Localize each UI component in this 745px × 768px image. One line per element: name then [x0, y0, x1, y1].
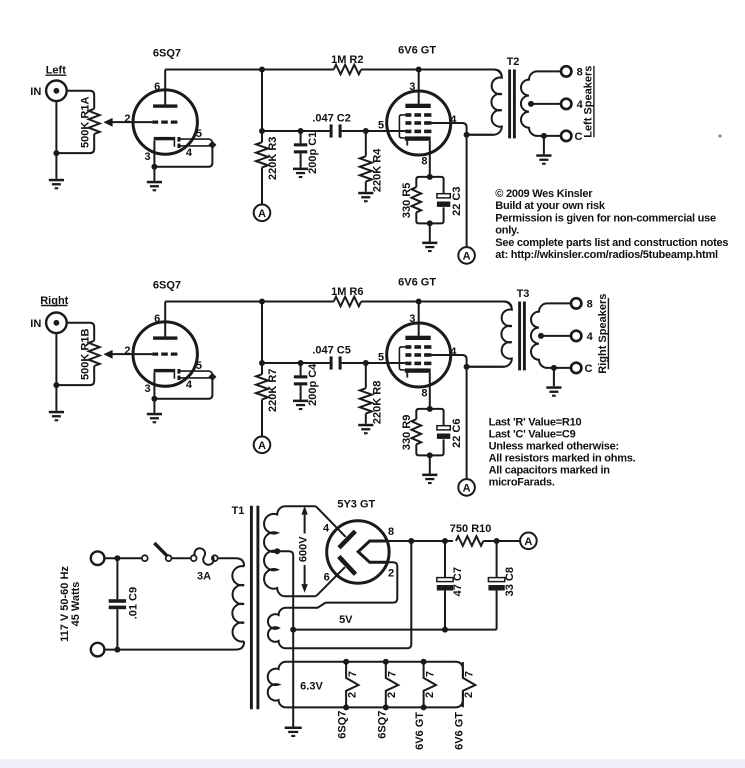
transformer T3 core — [518, 302, 521, 371]
wire diodes to cathode ground — [154, 145, 212, 167]
svg-text:A: A — [463, 250, 471, 262]
svg-text:5: 5 — [378, 119, 384, 131]
wire HV top to 5Y3 plate pin 4 — [316, 506, 346, 537]
transformer T2 secondary winding — [521, 71, 561, 135]
beam tetrode VL2 6V6 GT envelope — [387, 91, 451, 155]
svg-text:5: 5 — [196, 360, 202, 372]
ground (speaker common) — [536, 154, 551, 157]
junction C8 tap — [494, 538, 500, 544]
svg-text:8: 8 — [388, 526, 394, 538]
transformer T2 primary winding — [361, 70, 502, 135]
600V annotation arrow — [304, 514, 306, 534]
6V6 cathode lead pin 8 — [429, 141, 431, 177]
junction heater top — [343, 659, 349, 665]
beam tetrode VR2 6V6 GT envelope — [387, 323, 451, 387]
ground (6SQ7 cathode) — [147, 413, 162, 416]
svg-text:All resistors marked in ohms.: All resistors marked in ohms. — [489, 452, 636, 464]
input jack JR — [46, 313, 67, 334]
junction C9 top — [114, 555, 120, 561]
6V6 cathode — [405, 368, 431, 372]
svg-text:T3: T3 — [517, 288, 530, 300]
resistor 330 R9 (cathode bias) — [412, 419, 422, 444]
wire common to ground — [543, 136, 545, 154]
svg-text:4: 4 — [186, 147, 193, 159]
ground (grid resistor) — [358, 424, 373, 427]
wire C to 6V6 grid — [342, 362, 406, 364]
node A (B+ to preamp) — [254, 437, 271, 454]
ground (speaker common) — [546, 386, 561, 389]
junction grid resistor 220K R4 tap — [363, 128, 369, 134]
svg-text:47 C7: 47 C7 — [452, 567, 464, 596]
svg-text:microFarads.: microFarads. — [489, 476, 555, 488]
heater filament (6V6 GT #4) pins 2/7 — [463, 662, 475, 707]
wire diodes to cathode ground — [154, 377, 212, 399]
svg-text:6: 6 — [154, 81, 160, 93]
junction 200p C1 tap — [298, 128, 304, 134]
svg-text:6V6 GT: 6V6 GT — [414, 712, 426, 750]
svg-text:6: 6 — [154, 313, 160, 325]
svg-text:500K R1B: 500K R1B — [80, 329, 92, 380]
wire switch to fuse — [172, 557, 191, 559]
svg-text:220K R8: 220K R8 — [371, 381, 383, 424]
svg-text:2: 2 — [424, 692, 436, 698]
capacitor 22 C3 (cathode bypass) — [437, 194, 450, 198]
6SQ7 plate — [153, 104, 177, 107]
speaker terminal 4 — [571, 331, 581, 341]
AC input terminal (line) — [91, 551, 105, 565]
svg-text:A: A — [258, 440, 266, 452]
svg-text:6SQ7: 6SQ7 — [153, 48, 181, 60]
svg-text:.047 C2: .047 C2 — [312, 112, 351, 124]
junction cathode/diode node — [151, 164, 157, 170]
rectifier V5 5Y3 GT envelope — [327, 521, 389, 583]
svg-text:6: 6 — [324, 571, 330, 583]
svg-text:33 C8: 33 C8 — [504, 567, 516, 596]
6SQ7 plate lead pin 6 — [164, 70, 166, 105]
potentiometer wiper arrow — [103, 118, 112, 127]
wire R to transformer primary — [361, 302, 512, 310]
6V6 plate lead pin 3 — [418, 70, 420, 104]
svg-text:See complete parts list and co: See complete parts list and construction… — [495, 237, 728, 249]
svg-text:Left Speakers: Left Speakers — [583, 66, 595, 138]
wire center tap to ground — [277, 551, 293, 726]
svg-text:C: C — [585, 363, 593, 375]
svg-text:5: 5 — [196, 128, 202, 140]
resistor 1M R2 — [334, 65, 361, 75]
wire pin 2 to 5V winding — [286, 562, 397, 607]
wire jack to potentiometer top — [67, 323, 95, 341]
input jack JL — [46, 81, 67, 102]
potentiometer wiper arrow — [103, 350, 112, 359]
junction heater top — [383, 659, 389, 665]
resistor 220K R3 — [256, 142, 268, 167]
svg-text:2: 2 — [124, 113, 130, 125]
wire pot bottom to jack ground node — [56, 366, 94, 385]
svg-text:Right Speakers: Right Speakers — [597, 294, 609, 374]
junction screen/primary-return — [464, 364, 470, 370]
transformer T1 5V winding — [268, 541, 411, 648]
svg-text:4: 4 — [323, 522, 330, 534]
svg-text:8: 8 — [421, 155, 427, 167]
junction jack/pot ground node — [53, 150, 59, 156]
svg-text:6V6 GT: 6V6 GT — [398, 45, 436, 57]
resistor 330 R5 (cathode bias) — [412, 187, 422, 212]
junction cathode network bottom — [427, 452, 433, 458]
junction cathode network top — [427, 406, 433, 412]
svg-text:1M R2: 1M R2 — [331, 54, 363, 66]
ground (6V6 cathode) — [422, 242, 437, 245]
svg-text:330 R5: 330 R5 — [401, 183, 413, 218]
capacitor .047 C2 (coupling) — [330, 124, 333, 137]
transformer T1 core — [250, 506, 253, 710]
capacitor .01 C9 (line filter) — [116, 558, 118, 599]
junction diode plates (diamond) — [208, 141, 216, 149]
6SQ7 plate lead pin 6 — [164, 302, 166, 337]
6SQ7 diode plate pin 4 — [177, 376, 180, 380]
transformer T3 primary winding — [371, 302, 512, 367]
ground (power supply) — [285, 727, 302, 730]
resistor 220K R4 — [365, 131, 367, 156]
junction 5V return — [408, 538, 414, 544]
6V6 grids (dashed rows) — [405, 113, 411, 117]
wire 6SQ7 plate to R and 6V6 plate node — [165, 69, 334, 71]
wire jack to potentiometer top — [67, 91, 95, 109]
wire diode pin 4 — [181, 377, 213, 379]
svg-text:5: 5 — [378, 351, 384, 363]
junction cathode/diode node — [151, 396, 157, 402]
svg-text:IN: IN — [30, 318, 41, 330]
6V6 plate — [405, 336, 430, 340]
svg-text:500K R1A: 500K R1A — [80, 97, 92, 148]
junction ground bus — [290, 627, 296, 633]
junction cathode network top — [427, 174, 433, 180]
svg-text:7: 7 — [347, 671, 359, 677]
capacitor 33 C8 (filter) — [496, 541, 498, 578]
svg-text:7: 7 — [424, 671, 436, 677]
ground (C) — [293, 168, 308, 171]
speaker terminal C (common) — [571, 363, 581, 373]
svg-text:A: A — [258, 208, 266, 220]
resistor 220K R8 — [365, 363, 367, 388]
wire R10 to node A — [483, 540, 520, 542]
svg-text:Build at your own risk: Build at your own risk — [495, 200, 606, 212]
transformer T1 HV secondary winding — [264, 506, 316, 596]
potentiometer 500K R1B — [89, 341, 100, 366]
junction plate node — [259, 299, 265, 305]
HV center tap — [274, 548, 280, 554]
ground (input) — [49, 179, 64, 182]
artifact dot — [718, 134, 721, 137]
wire C to 6V6 grid — [342, 130, 406, 132]
svg-text:4: 4 — [450, 114, 457, 126]
cathode bias network rails — [416, 409, 430, 419]
speaker terminal 8 — [571, 298, 581, 308]
ground (6SQ7 cathode) — [147, 181, 162, 184]
node A (B+ to output stage) — [458, 247, 475, 264]
wire diode pin 4 — [181, 145, 213, 147]
switch S1 — [142, 555, 148, 561]
svg-text:2: 2 — [346, 692, 358, 698]
svg-text:22 C6: 22 C6 — [451, 419, 463, 448]
ground (C) — [293, 400, 308, 403]
junction jack/pot ground node — [53, 382, 59, 388]
junction 200p C4 tap — [298, 360, 304, 366]
6SQ7 cathode — [154, 137, 175, 140]
6V6 screen lead pin 4 to B+ — [431, 123, 466, 248]
capacitor .047 C5 (coupling) — [330, 356, 333, 369]
cathode bias network rails — [416, 177, 430, 187]
heater filament (6V6 GT #3) pins 2/7 — [424, 662, 436, 707]
svg-text:6V6 GT: 6V6 GT — [453, 712, 465, 750]
wire HV bottom to 5Y3 plate pin 6 — [316, 567, 345, 596]
svg-text:at: http://wkinsler.com/radios: at: http://wkinsler.com/radios/5tubeamp.… — [495, 249, 718, 261]
ground (6V6 cathode) — [422, 474, 437, 477]
svg-text:Last 'R' Value=R10: Last 'R' Value=R10 — [489, 416, 582, 428]
svg-text:5Y3 GT: 5Y3 GT — [337, 499, 375, 511]
speaker terminal 4 — [561, 99, 571, 109]
capacitor 47 C7 (filter) — [444, 541, 446, 578]
svg-text:2: 2 — [463, 692, 475, 698]
heater bus top — [286, 662, 463, 678]
svg-text:330 R9: 330 R9 — [401, 415, 413, 450]
svg-text:A: A — [463, 482, 471, 494]
wire fuse to T1 primary — [218, 558, 244, 566]
6SQ7 grid (dashed) — [152, 121, 158, 124]
6SQ7 cathode lead pin 3 to ground — [153, 140, 155, 181]
junction heater bottom — [421, 704, 427, 710]
svg-text:C: C — [575, 131, 583, 143]
svg-text:6SQ7: 6SQ7 — [337, 711, 349, 739]
wire pot bottom to jack ground node — [56, 134, 94, 153]
6V6 plate lead pin 3 — [418, 302, 420, 336]
speaker terminal C (common) — [561, 131, 571, 141]
svg-text:4: 4 — [450, 346, 457, 358]
ground (input) — [49, 411, 64, 414]
junction C7 tap — [442, 538, 448, 544]
junction C9 bottom — [114, 647, 120, 653]
junction screen/primary-return — [464, 132, 470, 138]
wire R down to node A — [261, 399, 263, 437]
capacitor 200p C1 — [300, 131, 302, 143]
6SQ7 plate — [153, 336, 177, 339]
junction common tap ground — [541, 133, 547, 139]
fuse F1 3A — [191, 555, 197, 561]
heater filament (6SQ7 #1) pins 2/7 — [346, 662, 358, 707]
AC input terminal (neutral) — [91, 643, 105, 657]
wire primary bottom to screen node — [467, 134, 494, 136]
svg-text:6SQ7: 6SQ7 — [376, 711, 388, 739]
svg-text:2: 2 — [386, 692, 398, 698]
transformer T3 secondary winding — [531, 303, 571, 368]
junction 6V6 plate branch — [416, 67, 422, 73]
svg-text:1M R6: 1M R6 — [331, 286, 363, 298]
6SQ7 cathode — [154, 369, 175, 372]
svg-text:22 C3: 22 C3 — [451, 187, 463, 216]
6SQ7 diode plate pin 5 — [177, 137, 180, 142]
svg-text:T1: T1 — [232, 505, 245, 517]
wire plate node down to grid resistor 220K R3 — [261, 70, 263, 143]
5Y3 lower plate — [339, 557, 356, 575]
ground bus wire — [293, 629, 496, 631]
6V6 grids (dashed rows) — [405, 345, 411, 349]
wire to ground — [429, 455, 431, 473]
svg-text:220K R4: 220K R4 — [371, 148, 383, 192]
6SQ7 cathode partition tick — [173, 372, 175, 378]
svg-text:6.3V: 6.3V — [300, 681, 323, 693]
secondary tap 4 ohm — [538, 333, 544, 339]
secondary tap 4 ohm — [528, 101, 534, 107]
wire diode pin 5 — [181, 371, 213, 377]
6SQ7 cathode lead pin 3 to ground — [153, 372, 155, 413]
svg-text:220K R7: 220K R7 — [267, 369, 279, 412]
svg-text:3: 3 — [409, 313, 415, 325]
svg-text:3: 3 — [409, 81, 415, 93]
svg-text:2: 2 — [388, 567, 394, 579]
wire 6SQ7 plate to R and 6V6 plate node — [165, 301, 334, 303]
bottom strip — [0, 759, 745, 768]
svg-text:7: 7 — [464, 671, 476, 677]
6SQ7 cathode partition tick — [173, 140, 175, 146]
svg-text:3: 3 — [145, 151, 151, 163]
wire plate node down to grid resistor 220K R7 — [261, 302, 263, 375]
node A (B+ to output stage) — [458, 479, 475, 496]
6V6 beam plate bracket — [399, 115, 405, 138]
node A (B+ output) — [520, 533, 537, 550]
6V6 cathode tick — [406, 373, 408, 378]
6SQ7 grid lead pin 2 to wiper — [112, 121, 152, 123]
junction cathode network bottom — [427, 220, 433, 226]
capacitor 22 C6 (cathode bypass) — [437, 426, 450, 430]
svg-text:3A: 3A — [197, 570, 211, 582]
6SQ7 grid lead pin 2 to wiper — [112, 353, 152, 355]
6SQ7 grid (dashed) — [152, 353, 158, 356]
triode/duo-diode tube VR1 6SQ7 envelope — [133, 322, 197, 386]
6V6 plate — [405, 104, 430, 108]
svg-text:T2: T2 — [507, 56, 520, 68]
svg-text:Permission is given for non-co: Permission is given for non-commercial u… — [495, 212, 716, 224]
resistor 220K R7 — [256, 374, 268, 399]
potentiometer 500K R1A — [89, 109, 100, 134]
6SQ7 diode plate pin 5 — [177, 369, 180, 374]
wire R down to node A — [261, 167, 263, 205]
svg-text:A: A — [524, 536, 532, 548]
capacitor 200p C4 — [300, 363, 302, 375]
svg-text:2: 2 — [124, 345, 130, 357]
svg-text:200p C1: 200p C1 — [307, 132, 319, 174]
junction coupling node — [259, 360, 265, 366]
svg-text:.047 C5: .047 C5 — [312, 344, 351, 356]
triode/duo-diode tube VL1 6SQ7 envelope — [133, 90, 197, 154]
junction plate node — [259, 67, 265, 73]
svg-text:All capacitors marked in: All capacitors marked in — [489, 464, 611, 476]
svg-text:8: 8 — [421, 387, 427, 399]
svg-text:4: 4 — [587, 331, 594, 343]
wire jack sleeve down — [55, 333, 57, 411]
junction heater top — [421, 659, 427, 665]
resistor 1M R6 — [334, 297, 361, 307]
6SQ7 diode plate pin 4 — [177, 144, 180, 148]
svg-text:750 R10: 750 R10 — [450, 523, 492, 535]
svg-text:220K R3: 220K R3 — [267, 137, 279, 180]
svg-text:Last 'C' Value=C9: Last 'C' Value=C9 — [489, 428, 576, 440]
6V6 screen lead pin 4 to B+ — [431, 355, 466, 480]
junction grid resistor 220K R8 tap — [363, 360, 369, 366]
wire to ground — [429, 223, 431, 241]
junction coupling node — [259, 128, 265, 134]
svg-text:600V: 600V — [297, 536, 309, 562]
junction C7 ground — [442, 627, 448, 633]
junction diode plates (diamond) — [208, 373, 216, 381]
transformer T1 6.3V winding — [268, 662, 286, 708]
ground (grid resistor) — [358, 192, 373, 195]
wire coupling line — [262, 130, 330, 132]
wire common to ground — [553, 368, 555, 386]
5Y3 filament — [358, 541, 387, 562]
6V6 cathode lead pin 8 — [429, 373, 431, 409]
junction common tap ground — [551, 365, 557, 371]
speaker terminal 8 — [561, 66, 571, 76]
wire line terminal to switch — [104, 557, 141, 559]
node A (B+ to preamp) — [254, 205, 271, 222]
svg-text:4: 4 — [186, 379, 193, 391]
svg-text:.01 C9: .01 C9 — [128, 587, 140, 619]
svg-text:8: 8 — [587, 299, 593, 311]
svg-text:IN: IN — [30, 86, 41, 98]
svg-text:45 Watts: 45 Watts — [70, 582, 82, 627]
svg-text:200p C4: 200p C4 — [307, 363, 319, 406]
resistor 750 R10 — [456, 536, 483, 546]
wire pin 8 to B+ rail — [387, 540, 453, 542]
heater bus bottom — [286, 691, 463, 707]
svg-text:© 2009 Wes Kinsler: © 2009 Wes Kinsler — [495, 188, 593, 200]
junction heater bottom — [383, 704, 389, 710]
wire R to transformer primary — [361, 70, 502, 78]
svg-text:3: 3 — [145, 383, 151, 395]
svg-text:5V: 5V — [339, 614, 353, 626]
6V6 cathode — [405, 136, 431, 140]
svg-text:6SQ7: 6SQ7 — [153, 280, 181, 292]
transformer T1 primary winding — [232, 566, 244, 641]
6V6 cathode tick — [406, 141, 408, 146]
6V6 beam plate bracket — [399, 347, 405, 370]
junction 6V6 plate branch — [416, 299, 422, 305]
svg-text:6V6 GT: 6V6 GT — [398, 277, 436, 289]
wire neutral terminal to T1 primary bottom — [104, 641, 244, 649]
junction heater bottom — [343, 704, 349, 710]
svg-text:7: 7 — [387, 671, 399, 677]
svg-text:only.: only. — [495, 225, 519, 237]
wire coupling line — [262, 362, 330, 364]
heater filament (6SQ7 #2) pins 2/7 — [386, 662, 398, 707]
5Y3 upper plate — [339, 531, 355, 548]
svg-text:Unless marked otherwise:: Unless marked otherwise: — [489, 440, 619, 452]
wire jack sleeve down — [55, 101, 57, 179]
transformer T2 core — [508, 70, 511, 139]
wire primary bottom to screen node — [467, 366, 504, 368]
wire diode pin 5 — [181, 139, 213, 145]
